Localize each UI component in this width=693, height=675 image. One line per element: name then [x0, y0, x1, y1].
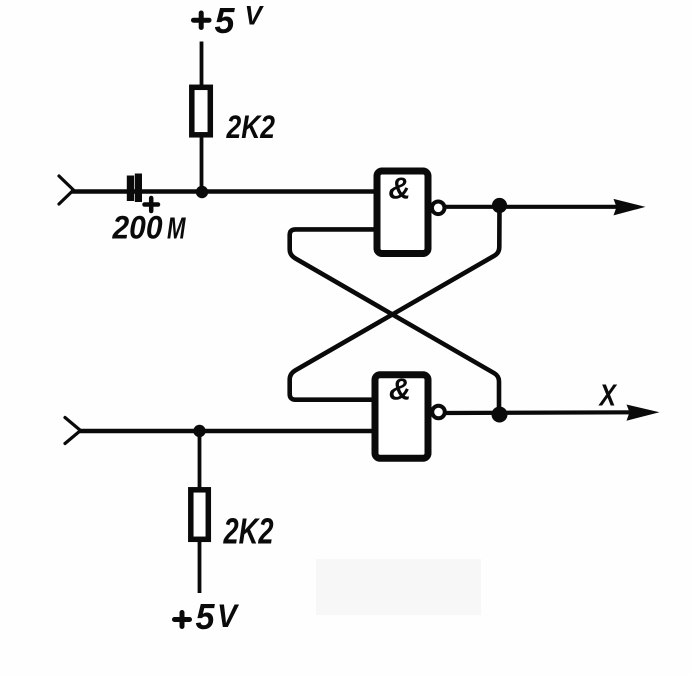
- svg-text:X: X: [598, 378, 618, 413]
- wire U1 output to arrow: [445, 205, 621, 209]
- wire +5V to resistor R1: [200, 42, 204, 88]
- input arrow (top left): [59, 176, 74, 204]
- resistor R1: [192, 87, 211, 135]
- resistor R2: [191, 490, 209, 540]
- wire resistor R2 to +5V: [198, 537, 202, 593]
- wire U2 output to arrow: [445, 410, 634, 415]
- output arrowhead (bottom, X): [627, 405, 660, 421]
- wire resistor R1 to node A: [200, 135, 204, 193]
- wire Qbar to U1 input (cross-coupling): [290, 229, 499, 414]
- svg-text:V: V: [245, 1, 264, 31]
- polarity + mark: [145, 198, 159, 211]
- nand gate U1: [377, 171, 428, 254]
- wire top input to gate U1: [71, 189, 375, 193]
- nand gate U2: [375, 372, 428, 459]
- node A junction dot: [196, 186, 208, 198]
- svg-text:V: V: [217, 598, 239, 634]
- svg-text:&: &: [389, 171, 411, 206]
- node X junction dot: [492, 407, 508, 423]
- svg-text:&: &: [389, 372, 411, 407]
- output arrowhead (top): [614, 199, 646, 216]
- svg-text:5: 5: [215, 0, 236, 41]
- wire node B to resistor R2: [198, 431, 202, 490]
- label +5V (top): [194, 0, 264, 41]
- wire bottom input to gate U2: [78, 429, 375, 433]
- svg-text:2K2: 2K2: [223, 511, 274, 552]
- capacitor C1 (200M): [127, 174, 142, 203]
- input arrow (bottom left): [65, 418, 81, 444]
- scan artifact light rectangle: [316, 559, 481, 615]
- node B junction dot: [193, 425, 205, 437]
- svg-text:200: 200: [112, 210, 163, 246]
- U1 inversion bubble: [432, 202, 445, 215]
- label +5V (bottom): [175, 596, 240, 637]
- value label 200 M: [112, 210, 187, 246]
- node Q junction dot: [492, 198, 507, 213]
- wire Q to U2 input (cross-coupling): [290, 206, 500, 400]
- svg-text:2K2: 2K2: [226, 109, 275, 145]
- svg-text:5: 5: [196, 596, 216, 637]
- U2 inversion bubble: [432, 406, 445, 419]
- svg-text:M: M: [167, 211, 186, 246]
